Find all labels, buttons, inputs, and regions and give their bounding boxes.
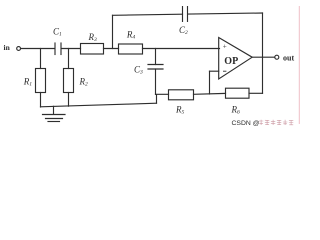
watermark right edge stripe (298, 6, 300, 124)
watermark glyph blocks (259, 120, 293, 125)
wire R4 to op-amp (143, 48, 220, 50)
resistor R6 (226, 88, 250, 98)
wire R3 to R4 (104, 48, 119, 50)
wire bottom ground rail (41, 103, 157, 107)
wire feedback right vertical (262, 13, 264, 93)
wire feedback left vertical (112, 15, 114, 48)
ground (43, 106, 66, 121)
wire inverting input vertical (209, 71, 211, 94)
svg-text:C3: C3 (134, 65, 143, 76)
svg-text:R3: R3 (88, 32, 98, 43)
capacitor C1 (55, 43, 61, 55)
op-amp U1 (219, 38, 253, 80)
svg-text:C1: C1 (53, 26, 62, 37)
wire C3 bottom stub (155, 69, 157, 94)
wire R1 bottom stub (40, 93, 42, 108)
wire inverting input horizontal (210, 70, 219, 72)
wire top left segment (113, 14, 183, 15)
svg-text:in: in (4, 43, 11, 52)
wire R1 top stub (40, 49, 42, 69)
svg-text:out: out (283, 53, 294, 62)
node out terminal (275, 55, 279, 59)
svg-text:R5: R5 (175, 104, 185, 115)
resistor R1 (36, 69, 46, 93)
svg-text:R1: R1 (23, 76, 33, 87)
wire R2 bottom stub (68, 93, 70, 107)
resistor R5 (169, 90, 194, 100)
label op-amp minus pin (223, 70, 226, 72)
svg-text:R2: R2 (79, 76, 89, 87)
wire ground rail riser and node to R5 (156, 94, 169, 103)
capacitor C3 (148, 65, 163, 70)
resistor R4 (119, 44, 143, 54)
wire R6 to right vertical (249, 92, 263, 94)
wire main input segment (21, 48, 54, 50)
svg-text:C2: C2 (179, 25, 188, 36)
wire output (252, 56, 274, 58)
svg-text:+: + (223, 43, 227, 51)
svg-text:CSDN @: CSDN @ (232, 120, 260, 127)
wire top right segment (188, 13, 263, 14)
wire R5 to R6 (194, 92, 226, 95)
wire R2 top stub (68, 49, 70, 69)
svg-text:OP: OP (224, 56, 238, 67)
capacitor C2 (183, 7, 188, 22)
wire C1 to R3 (62, 48, 81, 50)
svg-text:R4: R4 (126, 29, 135, 40)
wire C3 top stub (155, 49, 157, 65)
svg-text:R6: R6 (231, 104, 241, 115)
resistor R2 (64, 69, 74, 93)
resistor R3 (81, 44, 104, 55)
node in terminal (17, 47, 21, 51)
